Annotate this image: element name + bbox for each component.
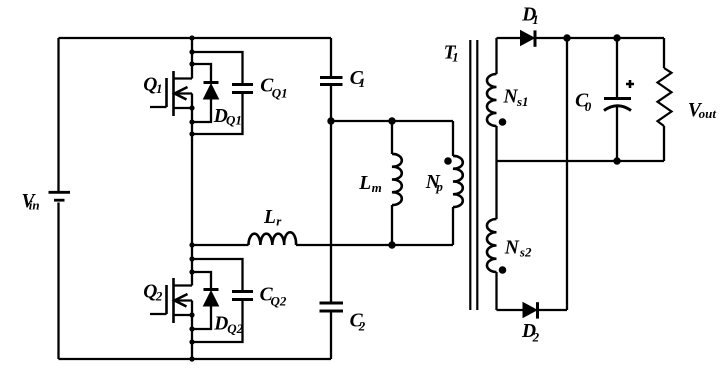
wire Lr row left [192,244,249,246]
wire secondary top rail [536,37,664,39]
diode D1 [521,30,536,46]
svg-text:m: m [372,180,382,195]
node Lm bottom [388,241,395,248]
inductor Lm [392,121,402,245]
node C0 top [613,34,620,41]
svg-text:out: out [699,106,717,121]
transformer T1 core [470,40,477,310]
capacitor C1 [320,38,343,303]
node Ns2 polarity dot [499,266,507,274]
svg-text:Q1: Q1 [226,113,242,128]
inductor Lr [249,232,297,245]
winding Ns2 [487,161,497,310]
node Ns1 polarity dot [499,118,507,126]
svg-text:in: in [29,197,40,212]
battery Vin [49,192,71,200]
wire main column bottom (Q2 source to bottom rail) [191,301,193,360]
svg-text:1: 1 [156,81,163,96]
node Np polarity dot [444,157,452,165]
wire primary top row [331,120,453,122]
svg-text:Q2: Q2 [271,293,287,308]
winding Np [453,121,463,245]
svg-text:L: L [263,207,276,228]
winding Ns1 [487,38,497,161]
wire D2 cathode [539,309,567,311]
node D1 cathode junction [563,34,570,41]
svg-text:D: D [213,313,228,334]
node dots main column [189,35,194,40]
diode DQ1 [192,64,219,122]
svg-text:N: N [504,237,520,258]
svg-text:1: 1 [452,50,459,65]
capacitor C0 [604,38,634,161]
wire left column lower [57,203,59,360]
svg-text:2: 2 [155,289,163,304]
wire left column upper [57,38,59,191]
node C1 junction [327,117,334,124]
transistor Q1 [150,71,192,116]
wire D1 anode [497,37,521,39]
diode D2 [523,302,538,318]
resistor Vout load [658,38,672,161]
transistor Q2 [150,278,192,323]
svg-text:1: 1 [532,12,539,27]
node C0 bottom [613,157,620,164]
capacitor CQ2 [192,259,253,342]
wire bottom rail [59,358,332,360]
svg-text:s1: s1 [516,94,529,109]
svg-text:0: 0 [585,99,592,114]
diode DQ2 [192,272,219,329]
capacitor C2 [320,303,344,359]
wire center tap row [497,160,665,162]
svg-text:Q1: Q1 [272,86,288,101]
wire main column middle (Q1 source to Q2 drain) [191,94,193,286]
wire Lr row right [296,244,453,246]
svg-text:Q2: Q2 [227,321,243,336]
svg-text:s2: s2 [519,245,532,260]
wire main column top (Q1 drain) [191,38,193,79]
svg-text:2: 2 [358,319,366,334]
svg-text:p: p [435,179,443,194]
capacitor CQ1 [192,52,253,134]
wire D2 return column [566,38,568,310]
wire D2 anode [497,309,524,311]
wire top rail [59,37,332,39]
svg-text:L: L [358,173,371,194]
svg-text:2: 2 [532,330,540,345]
svg-text:1: 1 [359,75,366,90]
node Lm top [388,117,395,124]
